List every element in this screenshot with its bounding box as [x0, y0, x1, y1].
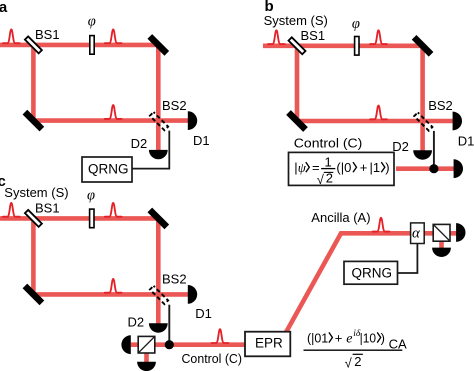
svg-text:|10: |10	[360, 330, 376, 345]
wire: beam bottom horizontal arm (panel c)	[31, 292, 189, 297]
node junction dot on control beam (panel b)	[429, 164, 438, 173]
svg-text:Ancilla (A): Ancilla (A)	[311, 210, 370, 225]
svg-text:φ: φ	[88, 14, 96, 30]
wire BS2 to control junction (panel b)	[433, 131, 435, 169]
beamsplitter BS2 dashed (panel b)	[414, 112, 432, 130]
phase box alpha (panel c)	[411, 223, 425, 244]
detector below ancilla PBS (panel c)	[432, 248, 451, 257]
wire: beam top horizontal arm (panel c)	[0, 216, 160, 221]
wire: beam right vertical arm BS2 to D2 (panel b)	[420, 44, 425, 151]
mirror bottom-left (panel c)	[23, 284, 45, 306]
svg-text:D1: D1	[195, 306, 212, 321]
pulse lower arm (panel a)	[105, 105, 122, 119]
svg-text:(|01: (|01	[307, 330, 328, 345]
wire: beam left vertical arm (panel a)	[31, 45, 36, 122]
svg-text:System (S): System (S)	[4, 185, 68, 200]
detector D2 (panel a)	[149, 150, 168, 159]
mirror bottom-left (panel b)	[286, 110, 308, 132]
svg-text:CA: CA	[389, 337, 407, 352]
svg-text:1: 1	[325, 155, 332, 170]
QRNG box (panel c)	[344, 261, 398, 284]
svg-text:D2: D2	[128, 314, 145, 329]
svg-text:BS1: BS1	[35, 200, 60, 215]
pulse input (panel b)	[268, 30, 285, 44]
pulse ancilla beam (panel c)	[373, 218, 390, 232]
wire: beam bottom horizontal arm (panel b)	[295, 119, 455, 124]
control state box (panel b)	[289, 152, 395, 185]
pulse input (panel c)	[3, 203, 20, 217]
mirror top-right (panel c)	[147, 208, 169, 230]
svg-text:2: 2	[326, 171, 333, 186]
svg-text:φ: φ	[87, 187, 95, 203]
svg-text:BS2: BS2	[162, 272, 187, 287]
pulse upper arm (panel a)	[105, 29, 122, 43]
svg-text:√: √	[345, 355, 353, 370]
svg-text:EPR: EPR	[255, 336, 283, 351]
detector D1 (panel c)	[188, 285, 197, 304]
detector below control PBS (panel c)	[137, 362, 156, 371]
wire: beam bottom horizontal arm (panel a)	[31, 118, 189, 123]
svg-text:+: +	[335, 330, 343, 345]
phase plate phi (panel b)	[355, 37, 359, 56]
svg-text:|ψ: |ψ	[294, 160, 306, 175]
detector D1 (panel b)	[453, 112, 462, 131]
polarizing beamsplitter cube ancilla (panel c)	[433, 224, 450, 241]
wire: beam ancilla PBS to bottom detector (panel c)	[439, 240, 444, 248]
detector left of control PBS (panel c)	[121, 335, 130, 354]
wire BS2 to control junction (panel c)	[168, 305, 170, 345]
svg-text:D2: D2	[131, 136, 148, 151]
svg-text:QRNG: QRNG	[88, 161, 129, 176]
svg-text:D1: D1	[458, 133, 474, 148]
svg-text:φ: φ	[352, 16, 360, 32]
phase plate phi (panel a)	[90, 36, 94, 55]
wire: beam left vertical arm (panel c)	[31, 218, 36, 295]
wire QRNG to alpha box (panel c)	[398, 244, 418, 273]
wire: beam right vertical arm BS2 to D2 (panel c)	[156, 217, 161, 324]
svg-text:BS2: BS2	[428, 98, 453, 113]
detector right of ancilla PBS (panel c)	[456, 223, 465, 242]
mirror top-right (panel a)	[147, 34, 169, 56]
wire: beam alpha box to ancilla PBS (panel c)	[422, 231, 457, 236]
node junction dot on control beam (panel c)	[165, 340, 174, 349]
pulse upper arm (panel c)	[105, 203, 122, 217]
wire: control beam from state box to detector (panel b)	[396, 166, 455, 171]
formula (|01> + e^{i delta}|10>)_CA over sqrt2 (panel c)	[304, 329, 407, 370]
svg-text:): )	[385, 160, 389, 175]
beamsplitter BS1 (panel b)	[289, 37, 306, 54]
svg-text:2: 2	[354, 354, 361, 369]
QRNG box (panel a)	[82, 157, 132, 182]
wire: beam PBS to bottom detector (panel c control analysis)	[144, 352, 149, 362]
svg-text:e: e	[346, 331, 352, 346]
svg-text:+: +	[360, 160, 368, 175]
svg-text:System (S): System (S)	[264, 13, 328, 28]
wire: ancilla beam diagonal and horizontal (panel c)	[282, 233, 412, 339]
beamsplitter BS1 (panel c)	[25, 210, 42, 227]
beamsplitter BS2 dashed (panel a)	[150, 112, 168, 130]
svg-text:α: α	[412, 225, 421, 241]
detector D2 (panel c)	[149, 323, 168, 332]
pulse upper arm (panel b)	[370, 30, 387, 44]
EPR source box (panel c)	[245, 332, 290, 357]
wire QRNG to BS2 (panel a)	[132, 131, 169, 169]
polarizing beamsplitter cube control (panel c)	[138, 336, 155, 353]
beamsplitter BS1 (panel a)	[25, 36, 42, 53]
detector for control qubit (panel b)	[454, 159, 463, 178]
svg-text:(|0: (|0	[336, 160, 351, 175]
svg-text:a: a	[0, 0, 8, 16]
wire: beam right vertical arm BS2 to D2 (panel a)	[156, 43, 161, 151]
pulse lower arm (panel c)	[105, 279, 122, 293]
pulse lower arm (panel b)	[370, 106, 387, 120]
svg-text:|1: |1	[370, 160, 381, 175]
svg-text:D1: D1	[193, 133, 210, 148]
phase plate phi (panel c)	[90, 209, 94, 228]
detector D1 (panel a)	[188, 111, 197, 130]
wire: control beam from EPR through PBS (panel c)	[131, 342, 246, 347]
detector D2 (panel b)	[413, 150, 432, 159]
svg-text:BS2: BS2	[162, 98, 187, 113]
svg-text:Control (C): Control (C)	[294, 135, 363, 150]
wire: beam top horizontal arm (panel b)	[263, 43, 424, 48]
svg-text:Control (C): Control (C)	[182, 351, 243, 366]
svg-text:BS1: BS1	[301, 28, 326, 43]
svg-text:QRNG: QRNG	[352, 265, 393, 280]
svg-text:√: √	[317, 172, 325, 187]
beamsplitter BS2 dashed (panel c)	[150, 286, 168, 304]
pulse input (panel a)	[3, 29, 20, 43]
svg-text:): )	[381, 330, 385, 345]
formula |psi> = (1/sqrt2)(|0> + |1>) (panel b)	[294, 155, 389, 188]
wire: beam left vertical arm (panel b)	[295, 46, 300, 123]
mirror bottom-left (panel a)	[23, 110, 45, 132]
pulse control beam (panel c)	[212, 329, 229, 343]
wire: beam top horizontal arm (panel a)	[0, 43, 160, 48]
mirror top-right (panel b)	[412, 35, 434, 57]
svg-text:BS1: BS1	[35, 27, 60, 42]
